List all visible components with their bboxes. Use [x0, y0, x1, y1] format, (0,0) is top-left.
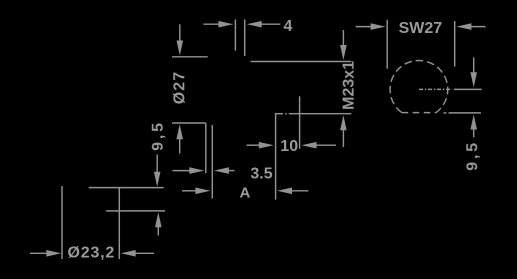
- dimension 3.5 right arrow: [214, 167, 235, 174]
- dimension Ø23,2 right arrow: [121, 250, 154, 257]
- extension line right of 4 dim: [244, 19, 246, 56]
- dimension 9,5 left upper arrow: [154, 155, 161, 187]
- svg-text:3.5: 3.5: [250, 165, 272, 182]
- svg-text:M23x1: M23x1: [341, 61, 358, 110]
- outline line top of flange (Ø27 upper extension): [172, 56, 208, 58]
- outline corner vertical at thread shoulder: [275, 113, 277, 200]
- dimension A right arrow: [277, 188, 308, 195]
- svg-text:Ø23,2: Ø23,2: [68, 244, 116, 261]
- svg-text:A: A: [240, 184, 251, 201]
- dimension 4 left arrow: [203, 21, 233, 28]
- dimension Ø27 lower arrow: [176, 124, 183, 153]
- dimension SW27 right arrow: [456, 23, 485, 30]
- extension line left of SW27: [386, 20, 388, 69]
- extension line left of 4 dim: [234, 19, 236, 50]
- extension line right of 10 dim: [299, 96, 301, 149]
- dimension M23x1 lower arrow: [340, 115, 347, 147]
- dimension 9,5 left lower arrow: [155, 212, 162, 235]
- outline line thread crest (top): [251, 61, 352, 63]
- extension line right of SW27: [454, 21, 456, 67]
- hidden circle of connector body (dashed): [390, 60, 448, 112]
- extension line left of Ø23,2: [61, 186, 63, 259]
- extension line right of 3.5 dim: [211, 125, 213, 199]
- svg-text:10: 10: [280, 138, 298, 155]
- extension line right of Ø23,2: [118, 188, 120, 259]
- hidden flat chord at circle bottom (dashed): [402, 112, 436, 114]
- dimension 3.5 left arrow: [173, 167, 205, 174]
- dimension M23x1 upper arrow: [340, 30, 347, 60]
- dimension 10 left arrow: [247, 142, 274, 149]
- svg-text:SW27: SW27: [399, 20, 443, 37]
- dimension SW27 left arrow: [356, 23, 386, 30]
- svg-text:9,5: 9,5: [150, 120, 167, 151]
- svg-text:4: 4: [284, 18, 293, 35]
- dimension 4 right arrow: [247, 21, 281, 28]
- outline line rear top edge: [89, 187, 164, 189]
- dimension Ø27 upper arrow: [177, 24, 184, 55]
- dimension A left arrow: [182, 188, 210, 195]
- dimension 9,5 right upper arrow: [470, 58, 477, 88]
- outline line bottom of flange (Ø27 lower extension): [172, 122, 206, 124]
- dimension 10 right arrow: [302, 142, 337, 149]
- center line of circle (dash-dot): [419, 88, 482, 90]
- svg-text:9,5: 9,5: [464, 140, 481, 171]
- outline line thread root with dash-dot start: [276, 113, 351, 115]
- extension line of flat (right side): [444, 112, 482, 114]
- outline line rear lower edge: [106, 210, 165, 212]
- dimension 9,5 right lower arrow: [470, 115, 477, 138]
- dimension Ø23,2 left arrow: [30, 250, 61, 257]
- extension line left of 3.5 dim: [205, 123, 207, 173]
- svg-text:Ø27: Ø27: [171, 71, 188, 105]
